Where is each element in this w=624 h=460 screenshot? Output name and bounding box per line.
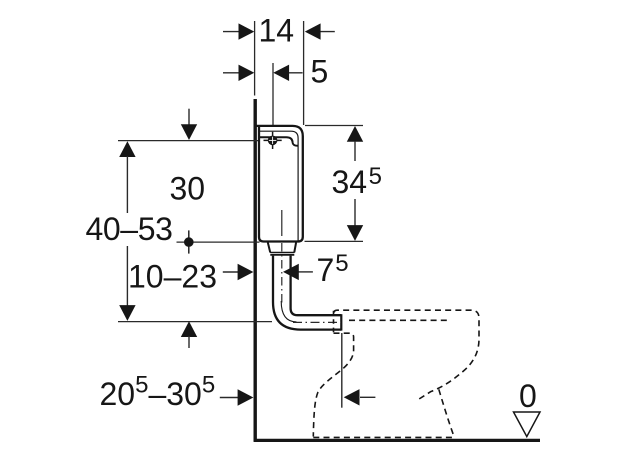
- bowl inner rim hidden line: [349, 319, 449, 321]
- spud box and rear pedestal curve: [333, 311, 335, 333]
- pipe centerline vertical: [281, 210, 283, 236]
- extension line cistern front: [303, 21, 305, 125]
- cistern lid bottom edge with step: [259, 137, 298, 146]
- toilet inlet arrow: [344, 389, 376, 405]
- pedestal right edge: [439, 389, 454, 436]
- dimension 14 left arrow: [223, 23, 254, 39]
- pedestal bottom edge: [313, 436, 454, 438]
- flush pipe with bend: [273, 256, 341, 331]
- dimension 30 top arrow: [181, 109, 197, 140]
- flush button crosshair: [264, 132, 282, 149]
- reference line flush bend axis: [118, 321, 272, 323]
- svg-text:30: 30: [170, 171, 206, 207]
- toilet bowl dashed outline: [313, 310, 479, 437]
- svg-text:5: 5: [311, 54, 329, 90]
- datum triangle: [514, 412, 541, 437]
- svg-text:0: 0: [519, 378, 537, 414]
- svg-text:205–305: 205–305: [100, 372, 216, 413]
- pipe centerline horizontal: [293, 321, 341, 323]
- dimension 10-23 wall arrow: [223, 264, 254, 280]
- reference line actuator height: [118, 140, 260, 142]
- svg-text:14: 14: [259, 13, 295, 49]
- extension line actuator axis: [272, 63, 274, 127]
- toilet inlet vertical reference line: [341, 333, 343, 408]
- dimension 34.5 line with arrows: [347, 126, 363, 241]
- cistern lid inner line: [259, 131, 298, 241]
- wall: [253, 99, 256, 442]
- dimension 20.5-30.5 arrow: [220, 389, 254, 405]
- svg-text:40–53: 40–53: [86, 211, 173, 247]
- flush valve neck: [268, 242, 296, 254]
- bowl top and right profile: [334, 310, 479, 400]
- extension line wall top: [254, 21, 256, 96]
- dimension 10-23 bottom arrow: [181, 321, 197, 348]
- dimension 5 left arrow: [223, 65, 254, 81]
- reference line cistern bottom left: [177, 241, 260, 243]
- dimension 5 right arrow: [273, 65, 302, 81]
- svg-text:10–23: 10–23: [128, 259, 217, 295]
- node split dot: [184, 230, 194, 253]
- cistern outer body outline: [256, 126, 302, 242]
- dimension 7.5 arrow: [283, 264, 313, 280]
- extension line cistern top right: [305, 125, 363, 127]
- extension line cistern bottom right: [305, 240, 364, 242]
- dimension 14 right arrow: [305, 23, 335, 39]
- floor line: [254, 439, 540, 442]
- dimension 40-53 line with arrows: [119, 141, 135, 321]
